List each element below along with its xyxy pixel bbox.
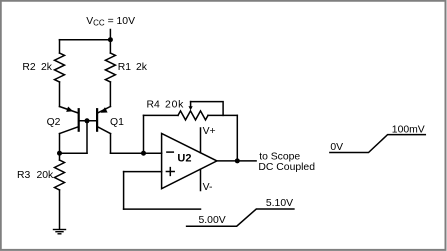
svg-text:R4: R4 xyxy=(147,100,161,111)
wire R3 bottom lead xyxy=(59,190,61,229)
svg-text:to Scope: to Scope xyxy=(259,151,300,162)
op-amp U2 triangle xyxy=(162,133,217,188)
wire feedback left vertical xyxy=(143,115,145,153)
resistor R2 xyxy=(55,53,65,82)
wire inverting input xyxy=(111,152,162,154)
wire V- pin xyxy=(200,169,202,190)
wire V+ pin xyxy=(200,128,202,153)
resistor R3 xyxy=(55,160,65,190)
svg-text:2k: 2k xyxy=(136,62,148,73)
svg-text:Q1: Q1 xyxy=(110,117,124,128)
svg-text:20k: 20k xyxy=(165,100,184,111)
wire output xyxy=(217,160,256,162)
transistor Q2 xyxy=(60,107,79,134)
waveform 5.00V to 5.10V xyxy=(187,209,294,226)
svg-text:DC Coupled: DC Coupled xyxy=(258,162,315,173)
svg-text:5.10V: 5.10V xyxy=(266,198,293,209)
wire R4 right lead xyxy=(208,114,237,116)
node dot output xyxy=(235,158,240,163)
node dot VCC xyxy=(108,37,113,42)
svg-text:R1: R1 xyxy=(118,62,132,73)
wire Q1 collector drop xyxy=(110,134,112,154)
wire R2 top lead xyxy=(59,40,61,53)
node dot bases xyxy=(85,118,90,123)
svg-text:100mV: 100mV xyxy=(392,124,425,135)
resistor R1 xyxy=(105,53,115,82)
wire VCC vertical drop xyxy=(109,30,111,54)
wire feedback right vertical xyxy=(236,115,238,160)
svg-text:2k: 2k xyxy=(41,62,53,73)
wire base drop xyxy=(86,121,88,153)
wire R1 bottom lead xyxy=(109,82,111,107)
svg-text:20k: 20k xyxy=(37,170,55,181)
ground xyxy=(54,230,66,234)
wire R4 left lead xyxy=(144,114,179,116)
node dot Q2 collector xyxy=(57,151,62,156)
wire top horizontal xyxy=(60,39,111,41)
node dot inverting xyxy=(141,151,146,156)
wire R2 bottom lead xyxy=(59,82,61,107)
transistor Q1 xyxy=(97,107,110,134)
wire R3 top lead xyxy=(59,153,61,160)
svg-text:U2: U2 xyxy=(177,153,191,165)
waveform 0V to 100mV xyxy=(330,135,425,153)
svg-text:Q2: Q2 xyxy=(47,117,61,128)
wire input drop xyxy=(123,172,125,210)
op-amp minus sign xyxy=(167,151,173,153)
op-amp plus sign xyxy=(166,168,174,176)
svg-text:0V: 0V xyxy=(330,142,343,153)
wire input bottom xyxy=(124,208,201,210)
wire Q2 collector drop xyxy=(59,134,61,154)
svg-text:V+: V+ xyxy=(203,126,216,137)
wire base to node A xyxy=(60,152,88,154)
svg-text:5.00V: 5.00V xyxy=(199,215,226,226)
svg-text:R2: R2 xyxy=(22,62,36,73)
resistor R4 xyxy=(178,111,208,120)
R4 wiper arm xyxy=(189,102,224,116)
svg-text:V-: V- xyxy=(203,182,213,193)
wire base link xyxy=(79,120,97,122)
wire non-inverting input xyxy=(124,171,162,173)
svg-text:R3: R3 xyxy=(17,170,31,181)
